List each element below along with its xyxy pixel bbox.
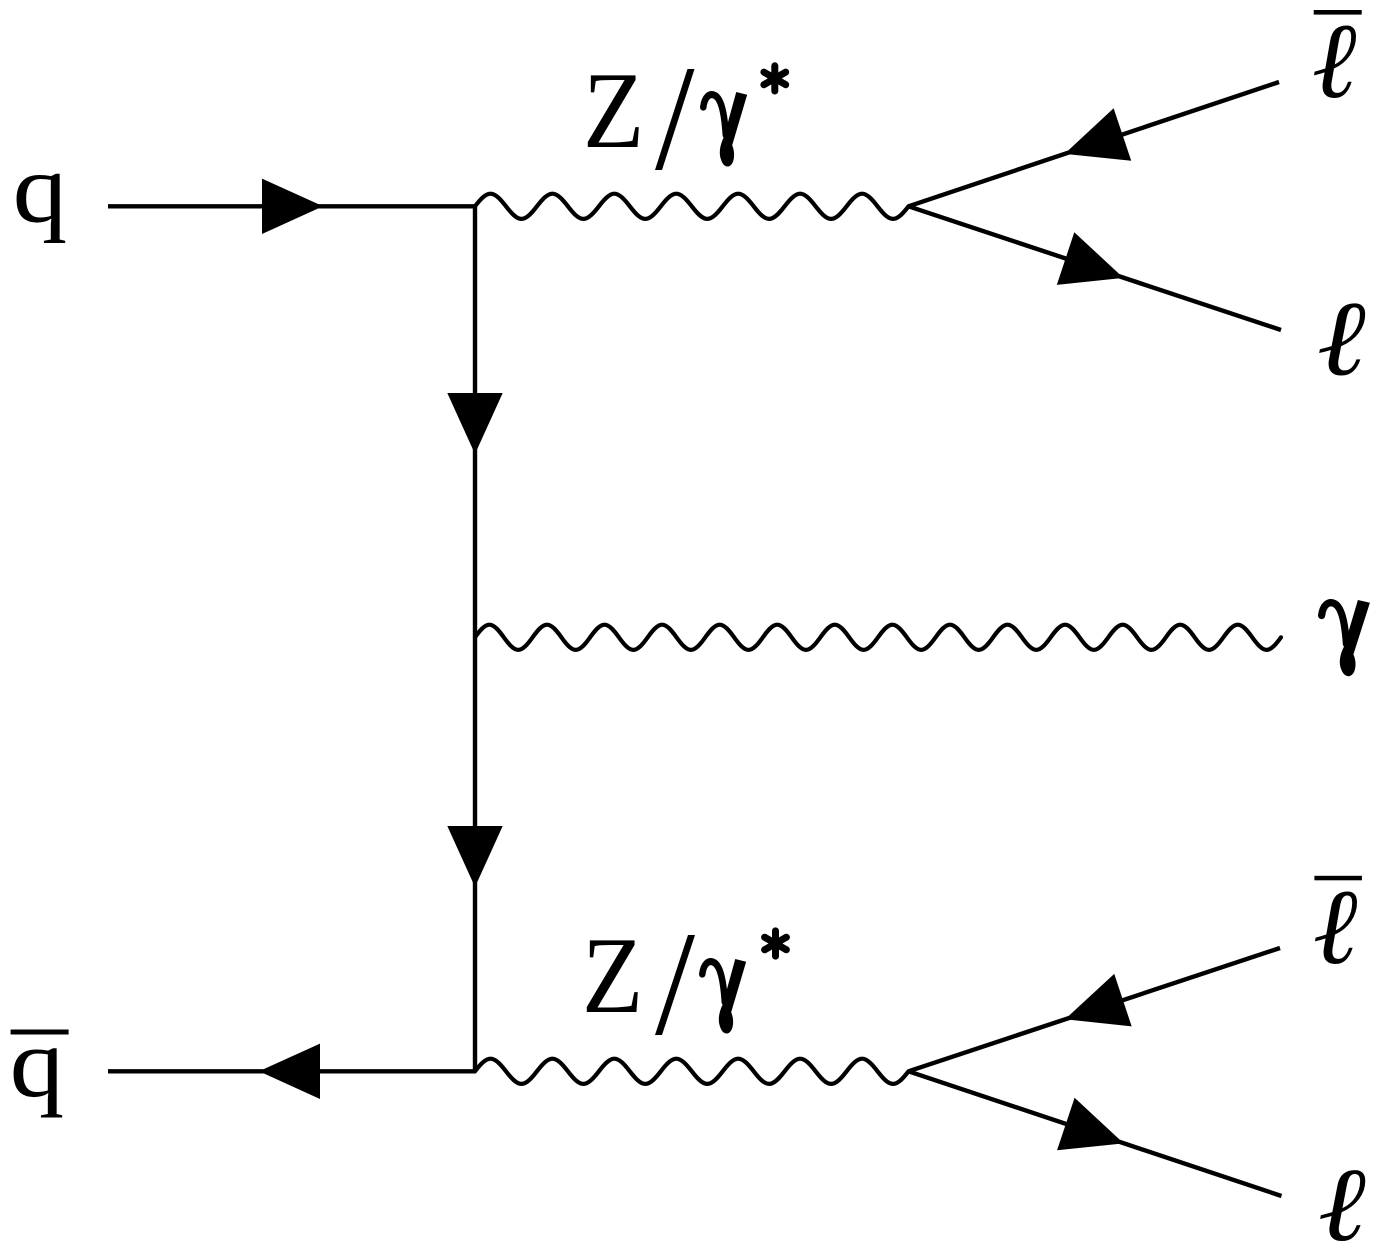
svg-text:ℓ: ℓ: [1313, 868, 1358, 987]
arrow on bottom lbar line: [1056, 974, 1131, 1046]
label lbar (top): [1312, 2, 1362, 121]
boson Z/gamma* wavy line (top): [475, 194, 909, 219]
label lbar (bottom): [1313, 868, 1362, 987]
label Z/gamma* (top): [583, 50, 786, 171]
wire: outgoing l line (top vertex): [909, 206, 1282, 330]
arrow lower on internal propagator: [447, 826, 502, 887]
svg-text:ℓ: ℓ: [1312, 2, 1357, 121]
wire: outgoing lbar line (top vertex): [909, 82, 1280, 206]
arrow upper on internal propagator: [447, 393, 502, 454]
arrow on top lbar line: [1056, 108, 1131, 180]
arrow on incoming qbar line: [259, 1044, 320, 1099]
label gamma (outgoing photon): [1322, 600, 1370, 676]
wire: outgoing lbar line (bottom vertex): [909, 948, 1281, 1071]
label l (top): [1317, 280, 1366, 398]
svg-text:ℓ: ℓ: [1318, 1147, 1366, 1252]
svg-text:Z: Z: [583, 50, 644, 171]
svg-text:ℓ: ℓ: [1317, 280, 1366, 398]
svg-text:q: q: [10, 1008, 65, 1119]
svg-text:Z: Z: [582, 915, 643, 1036]
wire: incoming antiquark line qbar: [108, 1069, 476, 1073]
label l (bottom): [1318, 1147, 1366, 1252]
wire: internal quark propagator (vertical): [473, 206, 477, 1071]
label q: [13, 133, 68, 244]
arrow on bottom l line: [1057, 1098, 1132, 1170]
svg-text:q: q: [13, 133, 68, 244]
wire: outgoing l line (bottom vertex): [909, 1071, 1282, 1196]
boson Z/gamma* wavy line (bottom): [475, 1059, 909, 1084]
arrow on top l line: [1057, 232, 1132, 304]
label qbar: [10, 1008, 69, 1119]
photon gamma wavy line (middle): [475, 625, 1281, 650]
label Z/gamma* (bottom): [582, 915, 786, 1036]
wire: incoming quark line q: [108, 204, 476, 208]
arrow on incoming q line: [262, 179, 323, 234]
